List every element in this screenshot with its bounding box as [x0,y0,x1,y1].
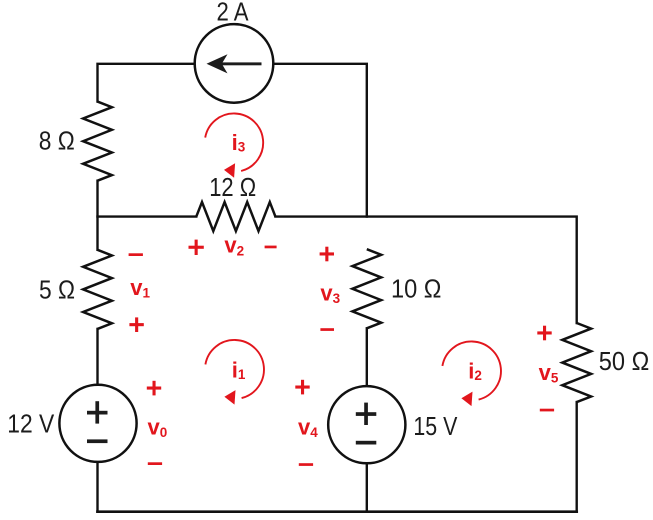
node v2 plus sign [189,240,204,255]
wire bottom rail [98,510,577,513]
voltage source 12V plus mark [87,401,108,423]
wire middle rail right of 12ohm [275,217,576,323]
resistor R 10ohm zigzag [352,249,381,328]
voltage source V 15V circle [328,386,405,463]
node v3 plus sign [320,247,334,262]
mesh current arrow i2 [442,341,501,406]
wire middle rail left of 12ohm [98,215,197,217]
svg-text:8 Ω: 8 Ω [39,126,75,156]
wire left rail 5ohm to 12V source [96,329,98,385]
node v5 minus sign [540,409,554,412]
node v2 minus sign [265,246,277,249]
wire left rail between 8ohm and 5ohm [96,181,98,250]
voltage source 15V minus mark [356,441,377,445]
node v1 plus sign [129,317,143,332]
svg-text:2 A: 2 A [217,0,250,27]
node v4 plus sign [295,380,309,395]
node v1 minus sign [129,253,143,256]
mesh current arrow i1 [205,340,264,405]
voltage source 15V plus mark [356,403,377,425]
svg-text:12 V: 12 V [7,409,55,439]
svg-text:15 V: 15 V [413,411,458,441]
mesh current arrow i3 [205,113,263,177]
node v0 plus sign [147,381,161,396]
voltage source 12V minus mark [87,439,108,443]
current source 2A circle [195,24,274,103]
wire top rail right segment [273,64,366,217]
voltage source V 12V circle [59,385,136,462]
resistor R 5ohm zigzag [83,250,112,329]
wire center branch source bottom to bottom rail [366,463,368,512]
resistor R 12ohm zigzag [196,202,275,231]
current source 2A arrow [207,54,262,73]
wire center branch 10ohm to 15V source [366,328,368,386]
resistor R 50ohm zigzag [562,323,591,402]
svg-text:5 Ω: 5 Ω [39,274,75,304]
wire left rail source bottom to bottom rail [96,462,98,512]
svg-text:10 Ω: 10 Ω [391,274,442,304]
node v5 plus sign [537,326,551,341]
svg-text:12 Ω: 12 Ω [209,172,256,202]
wire right rail 50ohm to bottom [576,402,578,512]
node v4 minus sign [299,463,313,466]
svg-text:50 Ω: 50 Ω [599,346,650,376]
node v3 minus sign [320,328,334,331]
resistor R 8ohm zigzag [83,102,112,181]
node v0 minus sign [148,462,162,465]
wire top rail left segment [98,64,195,102]
